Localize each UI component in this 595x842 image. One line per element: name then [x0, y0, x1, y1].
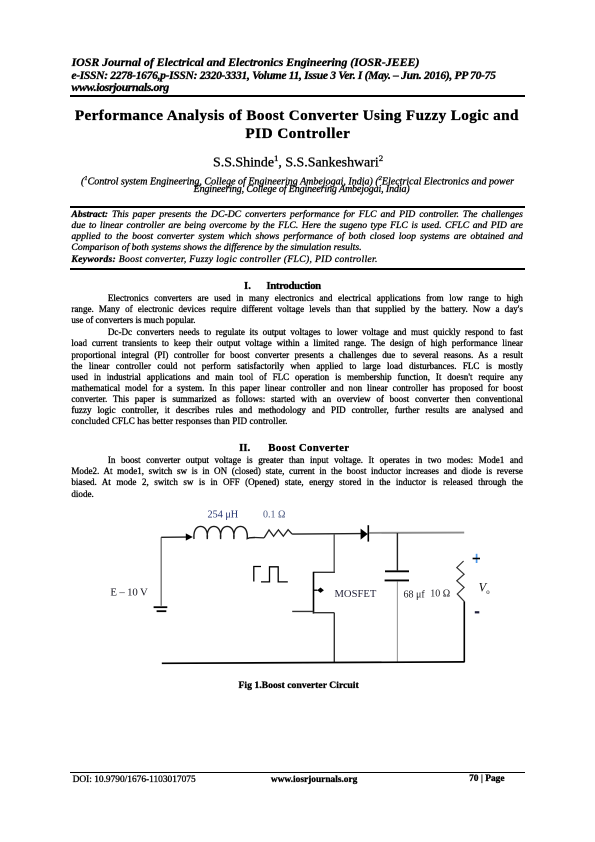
MOSFET channel bar [313, 572, 315, 614]
figure caption [239, 680, 359, 691]
intro paragraph 1 line 3 [71, 315, 523, 326]
intro paragraph 2 line 9 [71, 416, 523, 427]
intro paragraph 2 line 6 [71, 383, 523, 394]
svg-text:10 Ω: 10 Ω [430, 589, 450, 600]
paper title line 1 [75, 107, 519, 125]
wire: inductor to resistor [255, 537, 264, 539]
intro paragraph 2 line 8 [71, 405, 523, 416]
ground [154, 606, 168, 608]
wire: load resistor to bottom rail [463, 602, 465, 663]
svg-text:254 μH: 254 μH [208, 509, 239, 520]
section heading I numeral [244, 281, 251, 292]
MOSFET body diamond [314, 589, 318, 591]
svg-text:o: o [486, 589, 490, 596]
abstract line 1 [71, 209, 523, 220]
capacitor C bottom stem (faint) [396, 581, 398, 662]
gate wire [292, 610, 313, 612]
minus sign [475, 611, 480, 613]
section II paragraph line 2 [71, 466, 523, 477]
plus sign (blue vertical stroke) [476, 554, 478, 563]
wire: MOSFET drain vertical [333, 534, 335, 572]
wire: diode to load (gray) [369, 532, 464, 534]
intro paragraph 2 line 7 [71, 394, 523, 405]
wire: resistor to diode [292, 533, 361, 536]
section heading II title [268, 443, 349, 454]
svg-text:68 μf: 68 μf [404, 590, 426, 601]
section II paragraph line 3 [71, 477, 523, 488]
intro paragraph 1 line 2 [71, 304, 523, 315]
intro paragraph 2 line 3 [71, 350, 523, 361]
wire: left vertical from top wire to ground [160, 537, 162, 606]
intro paragraph 2 line 5 [71, 372, 523, 383]
abstract line 2 [71, 220, 523, 231]
diode D (arrow + cathode bar) [361, 529, 368, 540]
pulse source symbol [254, 567, 288, 582]
load resistor R (vertical zigzag) [457, 561, 465, 602]
section II paragraph line 4 [71, 489, 523, 500]
journal header line 2 [71, 70, 495, 82]
wire: source vertical to bottom rail [333, 613, 335, 663]
intro paragraph 1 line 1 [71, 293, 523, 304]
header rule [70, 95, 525, 97]
journal header line 1 [72, 56, 420, 68]
svg-text:E – 10 V: E – 10 V [110, 586, 148, 598]
capacitor C plates [385, 570, 409, 572]
svg-text:0.1 Ω: 0.1 Ω [263, 509, 285, 520]
keywords line [71, 254, 523, 265]
authors [213, 151, 383, 171]
paper title line 2 [245, 125, 350, 143]
intro paragraph 2 line 1 [71, 327, 523, 338]
wire: top-left horizontal with arrow [161, 536, 186, 538]
footer rule [70, 772, 525, 774]
abstract line 3 [71, 231, 523, 242]
section II paragraph line 1 [71, 455, 523, 466]
wire: drain horizontal into channel bar [314, 571, 335, 573]
svg-text:MOSFET: MOSFET [335, 589, 377, 600]
abstract top rule [70, 206, 526, 208]
affiliation line 2 [194, 184, 410, 195]
journal header line 3 [71, 81, 168, 93]
intro paragraph 2 line 2 [71, 338, 523, 349]
section heading I title [266, 281, 320, 292]
abstract line 4 [71, 242, 523, 253]
abstract bottom rule [70, 268, 526, 270]
inductor L (254 uH) [194, 526, 255, 539]
source horizontal [314, 612, 335, 614]
footer page number [469, 774, 504, 784]
footer DOI [73, 775, 196, 785]
bottom rail wire [162, 662, 465, 663]
capacitor C top stem [396, 533, 398, 570]
footer site [271, 775, 357, 785]
plus sign (black horizontal stroke) [473, 558, 480, 560]
section heading II numeral [239, 443, 250, 454]
resistor 0.1 ohm (zigzag) [264, 530, 292, 538]
intro paragraph 2 line 4 [71, 361, 523, 372]
affiliation line 1 [81, 173, 514, 187]
